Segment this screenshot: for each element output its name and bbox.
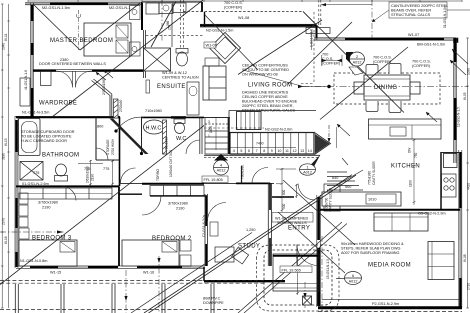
bathroom toilet <box>55 164 68 181</box>
living couch <box>203 58 226 100</box>
right dimension line <box>466 38 469 308</box>
svg-text:A012: A012 <box>353 61 362 65</box>
svg-text:H.W.C: H.W.C <box>146 126 162 132</box>
main section double diagonal <box>144 175 356 313</box>
dining table <box>354 75 420 100</box>
wardrobe shelf left <box>20 78 30 106</box>
ensuite shower <box>144 48 171 71</box>
entry screen wall label box <box>272 213 313 223</box>
media room bottom wall <box>318 306 462 309</box>
svg-text:600: 600 <box>282 189 286 195</box>
svg-text:CAVITY SLIDER: CAVITY SLIDER <box>372 161 376 185</box>
svg-text:STEPS, REFER SLAB PLAN DWG: STEPS, REFER SLAB PLAN DWG <box>341 247 401 251</box>
svg-text:BEAMS OVER, REFER: BEAMS OVER, REFER <box>391 9 431 13</box>
main staircase treads 4-14 <box>230 133 314 155</box>
dining top wall <box>314 38 455 40</box>
text leader to centreline <box>243 70 303 87</box>
svg-text:10: 10 <box>277 149 281 153</box>
ensuite vanity <box>146 80 199 115</box>
kitchen cooktop <box>442 174 457 197</box>
diagonal D-c dining right <box>320 47 408 120</box>
svg-text:W1-09: W1-09 <box>206 44 217 48</box>
long diagonal bedroom3 <box>0 126 204 285</box>
master bottom wall y70 <box>33 70 143 72</box>
coffer dashed west edge <box>181 0 184 48</box>
lower stair flight 1-3 <box>205 118 228 155</box>
bedrooms bottom wall <box>16 266 205 268</box>
kitchen appliance wall x441 <box>440 152 442 209</box>
entry north wall y197 <box>272 196 294 198</box>
living room vertical dim <box>311 30 313 50</box>
svg-text:P2-GS1-N-2.9m: P2-GS1-N-2.9m <box>372 302 399 306</box>
deck centreline arrows <box>124 256 306 313</box>
wardrobe door arcs <box>56 71 92 88</box>
leader arrows master area <box>96 70 113 80</box>
front door arc <box>297 245 318 266</box>
svg-text:DOOR CENTERED BETWEEN WALLS: DOOR CENTERED BETWEEN WALLS <box>39 62 106 66</box>
media top wall y210 <box>320 209 460 211</box>
hall south wall y183.5 <box>119 183 274 185</box>
svg-text:200PFC STEEL BEAM OVER,: 200PFC STEEL BEAM OVER, <box>242 104 294 108</box>
short 45 connector at corner <box>303 12 317 26</box>
svg-text:1: 1 <box>208 134 210 138</box>
svg-text:DW: DW <box>408 148 412 153</box>
svg-text:700: 700 <box>322 53 328 57</box>
media couch right <box>428 242 454 280</box>
entry steps NE <box>327 170 363 191</box>
kitchen leader NE steps <box>342 158 348 165</box>
bedroom2 bed <box>122 240 191 266</box>
svg-text:1: 1 <box>306 166 308 170</box>
stair top dashed line <box>204 127 264 129</box>
svg-text:760x1980: 760x1980 <box>241 165 245 179</box>
svg-text:900: 900 <box>345 185 351 189</box>
svg-text:W-05: W-05 <box>463 92 467 100</box>
svg-text:1,250: 1,250 <box>246 228 256 232</box>
corner post top right <box>454 38 459 43</box>
study desk <box>215 247 249 264</box>
svg-text:W1-07: W1-07 <box>408 33 419 37</box>
svg-text:W1-16: W1-16 <box>143 271 154 275</box>
svg-text:640: 640 <box>332 176 338 180</box>
left dimension lines <box>1 4 10 308</box>
svg-text:1290x90 CMT 3.00: 1290x90 CMT 3.00 <box>169 150 173 177</box>
svg-text:BM-GS1-N-1.0m: BM-GS1-N-1.0m <box>417 43 445 47</box>
bathroom tub <box>19 119 41 156</box>
svg-text:STRUCTURAL CALCS: STRUCTURAL CALCS <box>391 13 431 17</box>
svg-text:13: 13 <box>300 149 304 153</box>
bedroom2 door arc <box>142 196 161 215</box>
porch dashed outline <box>264 250 332 305</box>
bathroom-bedroom3 divider y186 <box>16 185 119 187</box>
parallel section diagonal upper <box>131 233 252 313</box>
wardrobe cabinet top <box>41 71 52 86</box>
svg-text:WARDROBE: WARDROBE <box>39 101 77 107</box>
svg-text:2700x90: 2700x90 <box>119 100 123 112</box>
svg-text:STUDY: STUDY <box>238 244 260 250</box>
master bed <box>84 6 140 57</box>
bedroom2 robes band <box>150 186 204 196</box>
svg-text:11: 11 <box>285 149 289 153</box>
media couch top <box>374 213 428 231</box>
svg-text:STORAGE CUPBOARD DOOR: STORAGE CUPBOARD DOOR <box>21 130 75 134</box>
HWC cupboard <box>142 117 167 154</box>
svg-text:N2-GS1-N-1.5m: N2-GS1-N-1.5m <box>206 29 233 33</box>
svg-text:6: 6 <box>248 149 250 153</box>
svg-text:H.W.C CUPBOARD DOOR: H.W.C CUPBOARD DOOR <box>21 139 67 143</box>
section bubble 4 <box>214 154 229 175</box>
svg-text:(COFFER): (COFFER) <box>322 62 341 66</box>
svg-text:CANTILEVERED 200PFC STEEL: CANTILEVERED 200PFC STEEL <box>391 4 448 8</box>
bedroom3 robes <box>20 188 112 199</box>
hall stub wall x241 <box>241 166 243 184</box>
svg-text:A012: A012 <box>303 171 312 175</box>
diagonal D-a living-dining <box>303 12 404 113</box>
W1-09 label box <box>204 42 216 48</box>
svg-text:2340: 2340 <box>2 43 6 50</box>
svg-text:A012: A012 <box>349 280 358 284</box>
svg-text:CEILING COFFER/TRUSS: CEILING COFFER/TRUSS <box>242 64 288 68</box>
diagonal D-b dining up <box>288 22 352 84</box>
svg-text:900: 900 <box>282 203 286 209</box>
hall angled hatched wall lower <box>110 119 149 156</box>
svg-text:W1-15: W1-15 <box>50 271 61 275</box>
right outer wall dining <box>454 38 457 163</box>
svg-text:2190: 2190 <box>176 207 184 211</box>
bathroom door arc <box>96 148 108 160</box>
svg-text:90x19mm HARDWOOD DECKING &: 90x19mm HARDWOOD DECKING & <box>341 242 404 246</box>
WC room <box>174 117 202 154</box>
svg-text:1010: 1010 <box>368 198 376 202</box>
svg-text:DOWNPIPE: DOWNPIPE <box>203 301 224 305</box>
svg-text:7: 7 <box>256 149 258 153</box>
svg-text:TOP/BO: TOP/BO <box>156 168 160 181</box>
svg-text:CENTRES TO ALIGN: CENTRES TO ALIGN <box>162 76 199 80</box>
svg-text:700 C.O.S.: 700 C.O.S. <box>224 1 243 5</box>
section bubble 6 <box>336 272 362 285</box>
svg-text:BATHROOM: BATHROOM <box>42 153 79 159</box>
wall left lower bathroom-bedroom3 <box>15 116 31 268</box>
svg-text:C2-GS1-N-3.0s: C2-GS1-N-3.0s <box>202 215 206 237</box>
svg-text:CEILING COFFER ABOVE: CEILING COFFER ABOVE <box>242 95 288 99</box>
dining coffer dashed rect <box>334 73 440 104</box>
svg-text:4: 4 <box>233 149 235 153</box>
living east wall x316.5 <box>316 26 318 40</box>
svg-text:REFER STRUCTURAL CALCS: REFER STRUCTURAL CALCS <box>242 109 295 113</box>
hall angled wall upper <box>92 79 119 118</box>
leader arrows dining area <box>337 49 468 136</box>
svg-text:G5-GS2-N-2.9m: G5-GS2-N-2.9m <box>418 212 446 216</box>
FFL 19.565 box <box>280 266 312 273</box>
svg-text:1090: 1090 <box>467 68 470 75</box>
storage room walls <box>95 117 97 160</box>
svg-text:2: 2 <box>356 55 358 59</box>
stair upper landing box <box>237 112 262 130</box>
hall door arc <box>252 168 268 184</box>
entry dim stack x282 <box>276 168 298 212</box>
master centreline <box>78 10 80 50</box>
svg-text:700 C.O.S.: 700 C.O.S. <box>373 56 392 60</box>
svg-text:(COFFER): (COFFER) <box>224 6 243 10</box>
hall north wall y117 <box>141 116 204 118</box>
svg-text:W-08: W-08 <box>463 254 467 262</box>
svg-text:N1-GS1-N-0.8m: N1-GS1-N-0.8m <box>20 259 47 263</box>
bed2-bed3 divider x119 <box>118 186 120 266</box>
svg-text:3/760x1980: 3/760x1980 <box>168 202 188 206</box>
svg-text:366: 366 <box>166 20 170 26</box>
svg-text:FFL 19.565: FFL 19.565 <box>282 268 301 272</box>
svg-text:W.C: W.C <box>176 136 186 142</box>
section bubble 2 dining <box>346 52 365 66</box>
svg-text:8: 8 <box>263 149 265 153</box>
diagonal L5 living up <box>238 20 322 75</box>
svg-text:775: 775 <box>33 171 39 175</box>
stair side wall x229 <box>228 117 230 154</box>
svg-text:MEDIA ROOM: MEDIA ROOM <box>368 263 411 269</box>
entry door arc <box>298 184 315 201</box>
svg-text:41-GS1-N-1.8: 41-GS1-N-1.8 <box>24 70 28 90</box>
svg-text:3: 3 <box>208 120 210 124</box>
svg-text:750: 750 <box>414 152 418 158</box>
pantry column <box>324 184 340 211</box>
svg-text:M2-GS1-N-1: M2-GS1-N-1 <box>109 6 131 10</box>
svg-text:ENSUITE: ENSUITE <box>157 84 186 90</box>
stair 7400 label <box>256 142 264 146</box>
right outer wall kitchen media <box>459 150 462 308</box>
kitchen north bench <box>369 119 442 139</box>
ensuite top wall <box>142 1 202 3</box>
svg-text:5: 5 <box>240 149 242 153</box>
svg-text:2710: 2710 <box>467 283 470 290</box>
svg-text:710x1980: 710x1980 <box>145 109 162 113</box>
bathroom dim line <box>89 160 92 186</box>
svg-text:STORAGE: STORAGE <box>106 139 110 155</box>
dining chairs <box>349 64 401 113</box>
deck joists <box>15 284 214 313</box>
svg-text:(COFFER): (COFFER) <box>373 60 392 64</box>
bedroom3 door arc <box>62 187 76 201</box>
wall divider master-ensuite x142 <box>141 2 143 30</box>
kitchen fridge <box>444 154 458 168</box>
grid dashdot verticals <box>162 0 372 313</box>
svg-text:BEDROOM 3: BEDROOM 3 <box>32 236 72 242</box>
svg-text:01-GS1-N-1.0m: 01-GS1-N-1.0m <box>443 5 447 28</box>
svg-text:2380: 2380 <box>60 58 68 62</box>
room labels <box>32 38 420 269</box>
svg-text:A007 FOR SUBFLOOR FRAMING: A007 FOR SUBFLOOR FRAMING <box>341 251 399 255</box>
svg-text:W-11: W-11 <box>4 33 8 41</box>
hall upper boundary y117.5 stair zone <box>204 117 230 119</box>
master V ceiling lines <box>33 4 80 50</box>
svg-text:700 C.O.S.: 700 C.O.S. <box>412 60 431 64</box>
svg-text:4420: 4420 <box>467 183 470 190</box>
svg-text:W1-09 & W-12: W1-09 & W-12 <box>162 71 187 75</box>
diagonal entry to porch <box>283 180 355 245</box>
svg-text:N1-GS1-N-3.5m: N1-GS1-N-3.5m <box>22 111 49 115</box>
svg-text:80Ø P.V.C: 80Ø P.V.C <box>203 297 221 301</box>
svg-text:2700 HIGH: 2700 HIGH <box>111 138 115 155</box>
living coffer dashed edge <box>301 0 321 84</box>
W1-07 leader line <box>321 3 372 6</box>
svg-text:15-GS1-N-1.5: 15-GS1-N-1.5 <box>326 259 330 279</box>
svg-text:01-GS1-N-2.6m: 01-GS1-N-2.6m <box>22 182 49 186</box>
700 COS dim arrows <box>322 55 343 66</box>
svg-text:SCREEN WALLS: SCREEN WALLS <box>277 221 307 225</box>
svg-text:14: 14 <box>308 149 312 153</box>
grid dashdot horizontal left <box>0 231 64 233</box>
study door arc <box>208 203 227 222</box>
dining centreline <box>302 86 468 88</box>
living room top wall <box>200 24 317 26</box>
stair bottom dashed <box>204 154 320 156</box>
ensuite toilet <box>176 49 188 67</box>
svg-text:775x1980: 775x1980 <box>368 171 372 185</box>
svg-text:ENTRY: ENTRY <box>288 226 310 232</box>
svg-text:1100: 1100 <box>409 180 413 187</box>
svg-text:SETOUT TO BE CENTRED: SETOUT TO BE CENTRED <box>242 68 289 72</box>
stair winder chevron <box>310 125 337 167</box>
svg-text:CAVITY SLIDER: CAVITY SLIDER <box>329 187 333 211</box>
hall door arc <box>117 117 144 130</box>
diagonal coffer living <box>204 14 258 70</box>
svg-text:W1-08: W1-08 <box>238 16 249 20</box>
porch steps rect <box>273 254 319 291</box>
svg-text:FFL 19.805: FFL 19.805 <box>204 178 223 182</box>
bedroom2-study divider x206 <box>204 194 206 266</box>
study window bay <box>210 222 218 236</box>
svg-text:KITCHEN: KITCHEN <box>391 164 420 170</box>
svg-text:W-13: W-13 <box>4 138 8 146</box>
svg-text:C.O.S.: C.O.S. <box>322 57 333 61</box>
svg-text:3/760x1980: 3/760x1980 <box>38 201 58 205</box>
svg-text:TO BE LOCATED OPPOSITE: TO BE LOCATED OPPOSITE <box>21 135 72 139</box>
study bottom wall <box>203 267 205 281</box>
wardrobe bottom wall N1 <box>16 116 120 118</box>
svg-text:(COFFER): (COFFER) <box>412 64 431 68</box>
svg-text:12: 12 <box>293 149 297 153</box>
living tv unit <box>306 28 330 34</box>
svg-text:DASHED LINE INDICATES: DASHED LINE INDICATES <box>242 91 289 95</box>
svg-text:2/610x1980: 2/610x1980 <box>86 166 90 183</box>
svg-text:800: 800 <box>97 125 103 129</box>
top dimension line <box>28 0 462 2</box>
section bubble 1 <box>300 164 316 175</box>
kitchen south bench <box>322 192 401 206</box>
kitchen dim line x414 <box>413 139 416 205</box>
ensuite right wall x202 upper <box>201 2 203 12</box>
svg-text:MASTER BEDROOM: MASTER BEDROOM <box>50 38 113 44</box>
wall left upper master/wardrobe <box>31 3 34 117</box>
bedroom3 bed <box>19 228 77 266</box>
svg-text:7400: 7400 <box>256 142 264 146</box>
svg-text:3180: 3180 <box>2 153 6 160</box>
stair numbers <box>233 149 312 153</box>
svg-text:1400: 1400 <box>209 126 213 133</box>
svg-text:W-16: W-16 <box>4 236 8 244</box>
svg-text:M2-GS1-N-1.5m: M2-GS1-N-1.5m <box>42 6 70 10</box>
svg-text:2190: 2190 <box>42 206 50 210</box>
bubble texts <box>217 55 362 284</box>
svg-text:775: 775 <box>103 167 109 171</box>
svg-text:4: 4 <box>220 164 222 168</box>
bathroom shower <box>20 162 43 181</box>
svg-text:2190: 2190 <box>91 174 95 181</box>
svg-text:A012: A012 <box>217 169 226 173</box>
cantilever note box <box>389 2 447 18</box>
dashed window W1-08 <box>183 11 303 13</box>
ensuite steep roof line <box>151 2 176 48</box>
svg-text:12-GS2-N-1.5: 12-GS2-N-1.5 <box>456 107 460 127</box>
svg-text:DINING: DINING <box>374 85 397 91</box>
bathroom vanity <box>78 160 114 186</box>
svg-text:BEDROOM 2: BEDROOM 2 <box>152 236 192 242</box>
bedroom2 top wall y196 <box>150 195 207 197</box>
porch hatch diagonals <box>238 212 347 313</box>
svg-text:6: 6 <box>352 274 354 278</box>
entry east wall x318 hatched <box>317 195 321 307</box>
svg-text:W1-03 TEMPERED: W1-03 TEMPERED <box>275 217 309 221</box>
FFL 19.805 box <box>202 176 228 183</box>
svg-text:2/760x1980: 2/760x1980 <box>102 78 106 95</box>
svg-text:760x1980: 760x1980 <box>165 137 169 151</box>
svg-text:2970: 2970 <box>2 218 6 225</box>
svg-text:LIVING ROOM: LIVING ROOM <box>248 83 292 89</box>
deck edge dashed <box>0 281 462 312</box>
wall top master bedroom <box>25 3 142 5</box>
skylight diamond <box>209 32 240 63</box>
ensuite top cabinets <box>146 3 186 14</box>
bedroom3 drawers <box>19 193 28 227</box>
svg-text:1-GS1-N-1.0: 1-GS1-N-1.0 <box>310 29 314 47</box>
svg-text:N2-GS2-N-2.0m: N2-GS2-N-2.0m <box>265 128 292 132</box>
svg-text:BULKHEAD OVER TO ENCASE: BULKHEAD OVER TO ENCASE <box>242 100 298 104</box>
svg-text:9: 9 <box>271 149 273 153</box>
svg-text:ON WINDOW W1-08: ON WINDOW W1-08 <box>242 73 278 77</box>
entry west wall x270 <box>267 183 269 266</box>
